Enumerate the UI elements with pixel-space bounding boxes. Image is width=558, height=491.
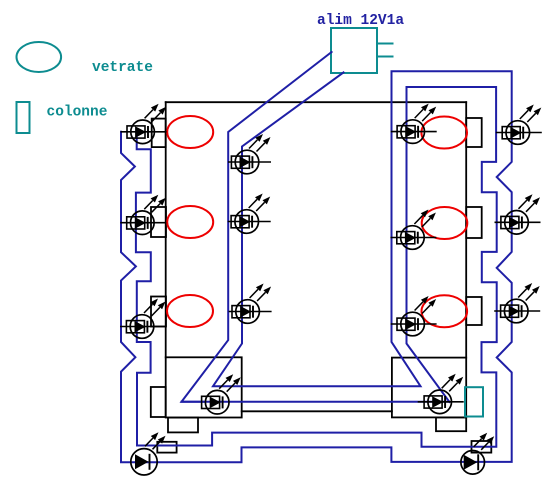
power supply stub pin 1 bbox=[377, 43, 393, 45]
left box side tab bbox=[151, 387, 166, 417]
svg-text:colonne: colonne bbox=[47, 105, 108, 121]
small box near bottom-left LED bbox=[157, 442, 176, 453]
colonna marker teal bbox=[465, 387, 483, 416]
small box near bottom-right LED bbox=[472, 441, 492, 453]
LED D9 inner-right column row3 bbox=[391, 296, 437, 336]
LED D2 left wall row2 bbox=[120, 195, 166, 235]
svg-text:vetrate: vetrate bbox=[92, 60, 153, 76]
pilaster right row3 bbox=[466, 297, 482, 325]
wire inner loop bbox=[136, 87, 497, 447]
vetrata window V1 left row1 bbox=[167, 116, 213, 148]
LED D4 inner-left column row1 bbox=[228, 134, 271, 174]
LED D15 bottom left bbox=[131, 432, 166, 475]
LED D10 right wall row1 bbox=[496, 105, 542, 145]
LED D11 right wall row2 bbox=[495, 194, 541, 234]
vetrata window V6 right row3 bbox=[422, 295, 468, 327]
pilaster left row2 bbox=[151, 207, 166, 237]
vetrata window V5 right row2 bbox=[422, 207, 468, 239]
wire bottom LED interconnect bbox=[182, 401, 450, 403]
legend colonne symbol bbox=[17, 102, 30, 133]
pilaster right row1 bbox=[466, 118, 482, 147]
base tab below left box bbox=[168, 418, 198, 433]
LED D1 left wall row1 bbox=[121, 104, 167, 144]
power supply stub pin 2 bbox=[377, 56, 393, 58]
building floor line bbox=[242, 410, 392, 412]
building base box right bbox=[392, 358, 466, 418]
power supply U1 alim 12V1a bbox=[331, 28, 377, 73]
base tab below right box bbox=[436, 417, 466, 431]
vetrata window V2 left row2 bbox=[167, 206, 213, 238]
legend vetrate symbol bbox=[17, 42, 62, 72]
building right wall bbox=[465, 102, 467, 357]
svg-text:alim 12V1a: alim 12V1a bbox=[317, 13, 404, 29]
pilaster left row3 bbox=[151, 297, 166, 327]
building top edge bbox=[166, 101, 467, 103]
LED D12 right wall row3 bbox=[494, 283, 540, 323]
LED D5 inner-left column row2 bbox=[228, 194, 271, 234]
vetrata window V3 left row3 bbox=[167, 295, 213, 327]
wire main outer loop bbox=[121, 71, 512, 462]
pilaster left row1 bbox=[152, 119, 166, 148]
LED D14 right base box bbox=[418, 374, 464, 414]
building left wall bbox=[165, 102, 167, 357]
pilaster right row2 bbox=[466, 207, 482, 238]
LED D3 left wall row3 bbox=[120, 299, 166, 339]
LED D6 inner-left column row3 bbox=[229, 284, 272, 324]
LED D7 inner-right column row1 bbox=[391, 104, 437, 144]
wire supply to left-inner column (outer) bbox=[182, 52, 332, 402]
LED D16 bottom right bbox=[461, 433, 494, 474]
building base box left bbox=[166, 357, 242, 417]
LED D13 left base box bbox=[202, 374, 241, 414]
vetrata window V4 right row1 bbox=[421, 117, 467, 149]
LED D8 inner-right column row2 bbox=[390, 210, 436, 250]
